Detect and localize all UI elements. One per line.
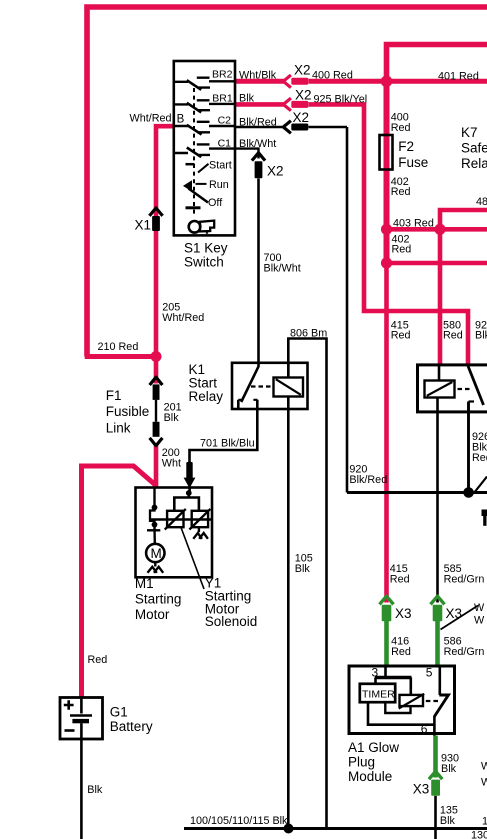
svg-text:Red: Red xyxy=(390,573,410,585)
svg-text:X3: X3 xyxy=(413,782,430,797)
svg-text:Red/Grn: Red/Grn xyxy=(444,646,485,658)
svg-text:Red: Red xyxy=(391,186,411,198)
svg-text:Fusible: Fusible xyxy=(106,404,150,419)
svg-text:Wht/Red: Wht/Red xyxy=(162,312,204,324)
svg-text:401 Red: 401 Red xyxy=(438,71,479,83)
svg-text:Blk/Red: Blk/Red xyxy=(239,116,277,128)
svg-text:Red/Grn: Red/Grn xyxy=(444,573,485,585)
svg-text:Wht/Blk: Wht/Blk xyxy=(239,69,277,81)
svg-text:480 Red: 480 Red xyxy=(476,196,487,208)
svg-text:Battery: Battery xyxy=(110,719,153,734)
svg-text:Blk: Blk xyxy=(441,763,457,775)
svg-text:Switch: Switch xyxy=(184,254,224,269)
svg-text:Blk: Blk xyxy=(239,93,255,105)
svg-text:3: 3 xyxy=(372,665,379,679)
svg-text:Blk: Blk xyxy=(164,412,180,424)
svg-text:S1 Key: S1 Key xyxy=(184,241,228,256)
svg-text:Motor: Motor xyxy=(135,607,170,622)
svg-text:Blk/Wht: Blk/Wht xyxy=(264,263,301,275)
svg-text:W: W xyxy=(481,777,487,789)
svg-text:Red: Red xyxy=(391,122,411,134)
svg-text:701 Blk/Blu: 701 Blk/Blu xyxy=(200,437,255,449)
svg-text:Plug: Plug xyxy=(348,755,375,770)
svg-text:A1 Glow: A1 Glow xyxy=(348,740,399,755)
svg-text:BR1: BR1 xyxy=(212,93,233,105)
svg-text:210 Red: 210 Red xyxy=(98,341,139,353)
svg-text:M: M xyxy=(151,546,162,561)
svg-text:W: W xyxy=(481,761,487,773)
svg-text:X2: X2 xyxy=(295,88,312,103)
svg-text:W: W xyxy=(474,615,485,627)
svg-text:Blk/Wht: Blk/Wht xyxy=(239,138,276,150)
svg-text:806 Bm: 806 Bm xyxy=(290,327,327,339)
svg-text:Red: Red xyxy=(88,654,108,666)
svg-text:G1: G1 xyxy=(110,705,128,720)
svg-text:Blk: Blk xyxy=(440,815,456,827)
svg-text:B: B xyxy=(177,114,185,126)
svg-text:925 Blk/Yel: 925 Blk/Yel xyxy=(314,93,368,105)
svg-text:F2: F2 xyxy=(398,139,414,154)
svg-text:Red: Red xyxy=(391,646,411,658)
svg-text:C2: C2 xyxy=(218,115,232,127)
svg-text:Starting: Starting xyxy=(135,592,182,607)
svg-text:Blk/Red: Blk/Red xyxy=(349,474,387,486)
svg-text:Solenoid: Solenoid xyxy=(205,614,258,629)
svg-text:X1: X1 xyxy=(135,218,152,233)
svg-text:1: 1 xyxy=(482,815,487,827)
svg-text:5: 5 xyxy=(426,665,433,679)
svg-text:X2: X2 xyxy=(293,110,310,125)
svg-text:Red: Red xyxy=(391,330,411,342)
svg-text:TIMER: TIMER xyxy=(362,689,395,701)
svg-text:BR2: BR2 xyxy=(212,69,233,81)
svg-text:Run: Run xyxy=(209,179,229,191)
svg-text:Start: Start xyxy=(209,160,232,172)
svg-text:X3: X3 xyxy=(446,606,463,621)
svg-text:W: W xyxy=(474,602,485,614)
svg-text:100/105/110/115 Blk: 100/105/110/115 Blk xyxy=(190,815,288,827)
svg-text:Link: Link xyxy=(106,420,131,435)
svg-text:K7: K7 xyxy=(461,125,478,140)
svg-text:Red: Red xyxy=(443,330,463,342)
svg-text:Relay: Relay xyxy=(461,156,487,171)
svg-text:Safety: Safety xyxy=(461,141,487,156)
svg-text:Red: Red xyxy=(392,244,412,256)
svg-text:Fuse: Fuse xyxy=(398,155,428,170)
svg-text:C1: C1 xyxy=(218,138,232,150)
svg-text:400 Red: 400 Red xyxy=(312,70,353,82)
svg-text:Off: Off xyxy=(208,197,223,209)
svg-text:F1: F1 xyxy=(106,388,122,403)
svg-text:6: 6 xyxy=(421,722,428,736)
svg-text:X2: X2 xyxy=(267,163,284,178)
svg-text:Blk: Blk xyxy=(87,784,103,796)
svg-text:X3: X3 xyxy=(395,606,412,621)
svg-text:130: 130 xyxy=(471,830,487,839)
svg-text:403 Red: 403 Red xyxy=(393,217,434,229)
svg-text:Blk: Blk xyxy=(295,563,311,575)
svg-text:Wht/Red: Wht/Red xyxy=(130,113,172,125)
svg-text:X2: X2 xyxy=(294,62,311,77)
svg-text:Module: Module xyxy=(348,769,392,784)
svg-text:Blk/Yel: Blk/Yel xyxy=(475,330,487,342)
svg-text:Red: Red xyxy=(472,452,487,464)
svg-text:M1: M1 xyxy=(135,576,154,591)
svg-text:Relay: Relay xyxy=(189,389,224,404)
svg-text:Wht: Wht xyxy=(162,457,181,469)
